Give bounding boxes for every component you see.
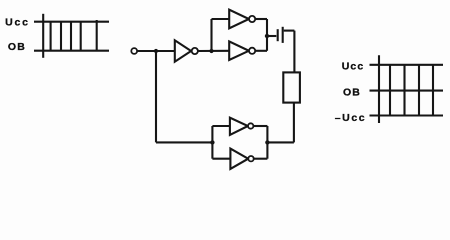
wire joining U4 and U5 outputs (266, 126, 268, 159)
wire U3 output (255, 50, 267, 52)
wire to U4 input (212, 125, 230, 127)
left waveform vertical axis (42, 14, 44, 58)
wire node C to capacitor (267, 35, 276, 37)
svg-text:OB: OB (8, 41, 26, 53)
left waveform bar 1 (50, 21, 52, 51)
svg-text:Ucc: Ucc (5, 16, 30, 28)
wire bottom run to node D (156, 141, 212, 143)
inverter U2 bubble (249, 16, 255, 22)
wire U4 output (253, 125, 267, 127)
inverter U2 (229, 10, 249, 29)
node C junction dot (265, 34, 269, 38)
left waveform Ucc level line (34, 21, 109, 23)
right waveform vertical axis (378, 55, 380, 123)
left waveform bar 3 (70, 21, 72, 51)
capacitor C1 left plate (277, 29, 279, 41)
inverter U5 (230, 149, 248, 169)
svg-text:–Ucc: –Ucc (335, 112, 367, 124)
inverter U4 bubble (248, 123, 253, 128)
node E junction dot (265, 140, 269, 144)
node B junction dot (209, 49, 213, 53)
left waveform bar 2 (60, 21, 62, 51)
inverter U1 bubble (192, 48, 198, 54)
wire bottom to node E (267, 141, 294, 143)
right waveform bar 2 (403, 64, 405, 116)
right waveform Ucc level line (370, 64, 444, 66)
wire U5 output (254, 158, 268, 160)
inverter U1 (175, 40, 191, 61)
wire R1 bottom lead (293, 103, 295, 143)
wire U2 output (255, 18, 267, 20)
wire joining U2 and U3 outputs (266, 19, 268, 51)
left waveform bar 5 (96, 20, 98, 51)
resistor R1 (283, 72, 300, 102)
input terminal (131, 48, 137, 54)
right waveform OB level line (370, 90, 444, 92)
wire to U5 input (212, 158, 230, 160)
right waveform -Ucc level line (370, 114, 444, 116)
wire corner down to resistor R1 (293, 31, 295, 73)
wire capacitor to corner (284, 30, 295, 32)
capacitor C1 right plate (282, 27, 284, 43)
right waveform bar 3 (418, 64, 420, 116)
right waveform bar 4 (432, 64, 434, 116)
wire to U2 input (212, 18, 230, 20)
inverter U3 (229, 41, 249, 60)
node A junction dot (154, 49, 158, 53)
svg-text:Ucc: Ucc (342, 60, 365, 72)
left waveform OB level line (34, 50, 109, 52)
svg-text:OB: OB (343, 86, 361, 98)
wire node A down (155, 51, 157, 142)
wire node A to U1 input (156, 50, 175, 52)
right waveform bar 1 (389, 64, 391, 116)
wire input to node A (137, 50, 156, 52)
left waveform bar 4 (80, 21, 82, 51)
wire node D split (211, 126, 213, 159)
inverter U4 (230, 118, 248, 135)
inverter U3 bubble (249, 48, 255, 54)
wire U1 output to node B (198, 50, 229, 52)
wire node B up (210, 19, 212, 51)
inverter U5 bubble (248, 156, 253, 161)
node D junction dot (210, 140, 214, 144)
